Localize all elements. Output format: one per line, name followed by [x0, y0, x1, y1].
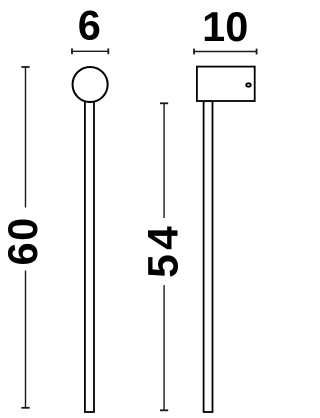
left fixture: vertical dimension line (height 60) [21, 67, 29, 408]
left fixture: horizontal dimension line (width 6) [72, 48, 108, 54]
left fixture: sphere head [73, 67, 108, 102]
svg-text:54: 54 [140, 222, 187, 278]
svg-text:6: 6 [78, 1, 101, 48]
right fixture: horizontal dimension line (width 10) [194, 49, 257, 55]
right fixture: screw detail [246, 83, 251, 86]
right fixture: vertical dimension line (height 54) [160, 103, 168, 410]
svg-text:10: 10 [202, 3, 248, 50]
svg-text:60: 60 [0, 216, 46, 265]
left fixture: rod (stem) [85, 95, 94, 412]
right fixture: rod (stem) [204, 101, 213, 412]
right fixture: driver box [197, 67, 255, 101]
